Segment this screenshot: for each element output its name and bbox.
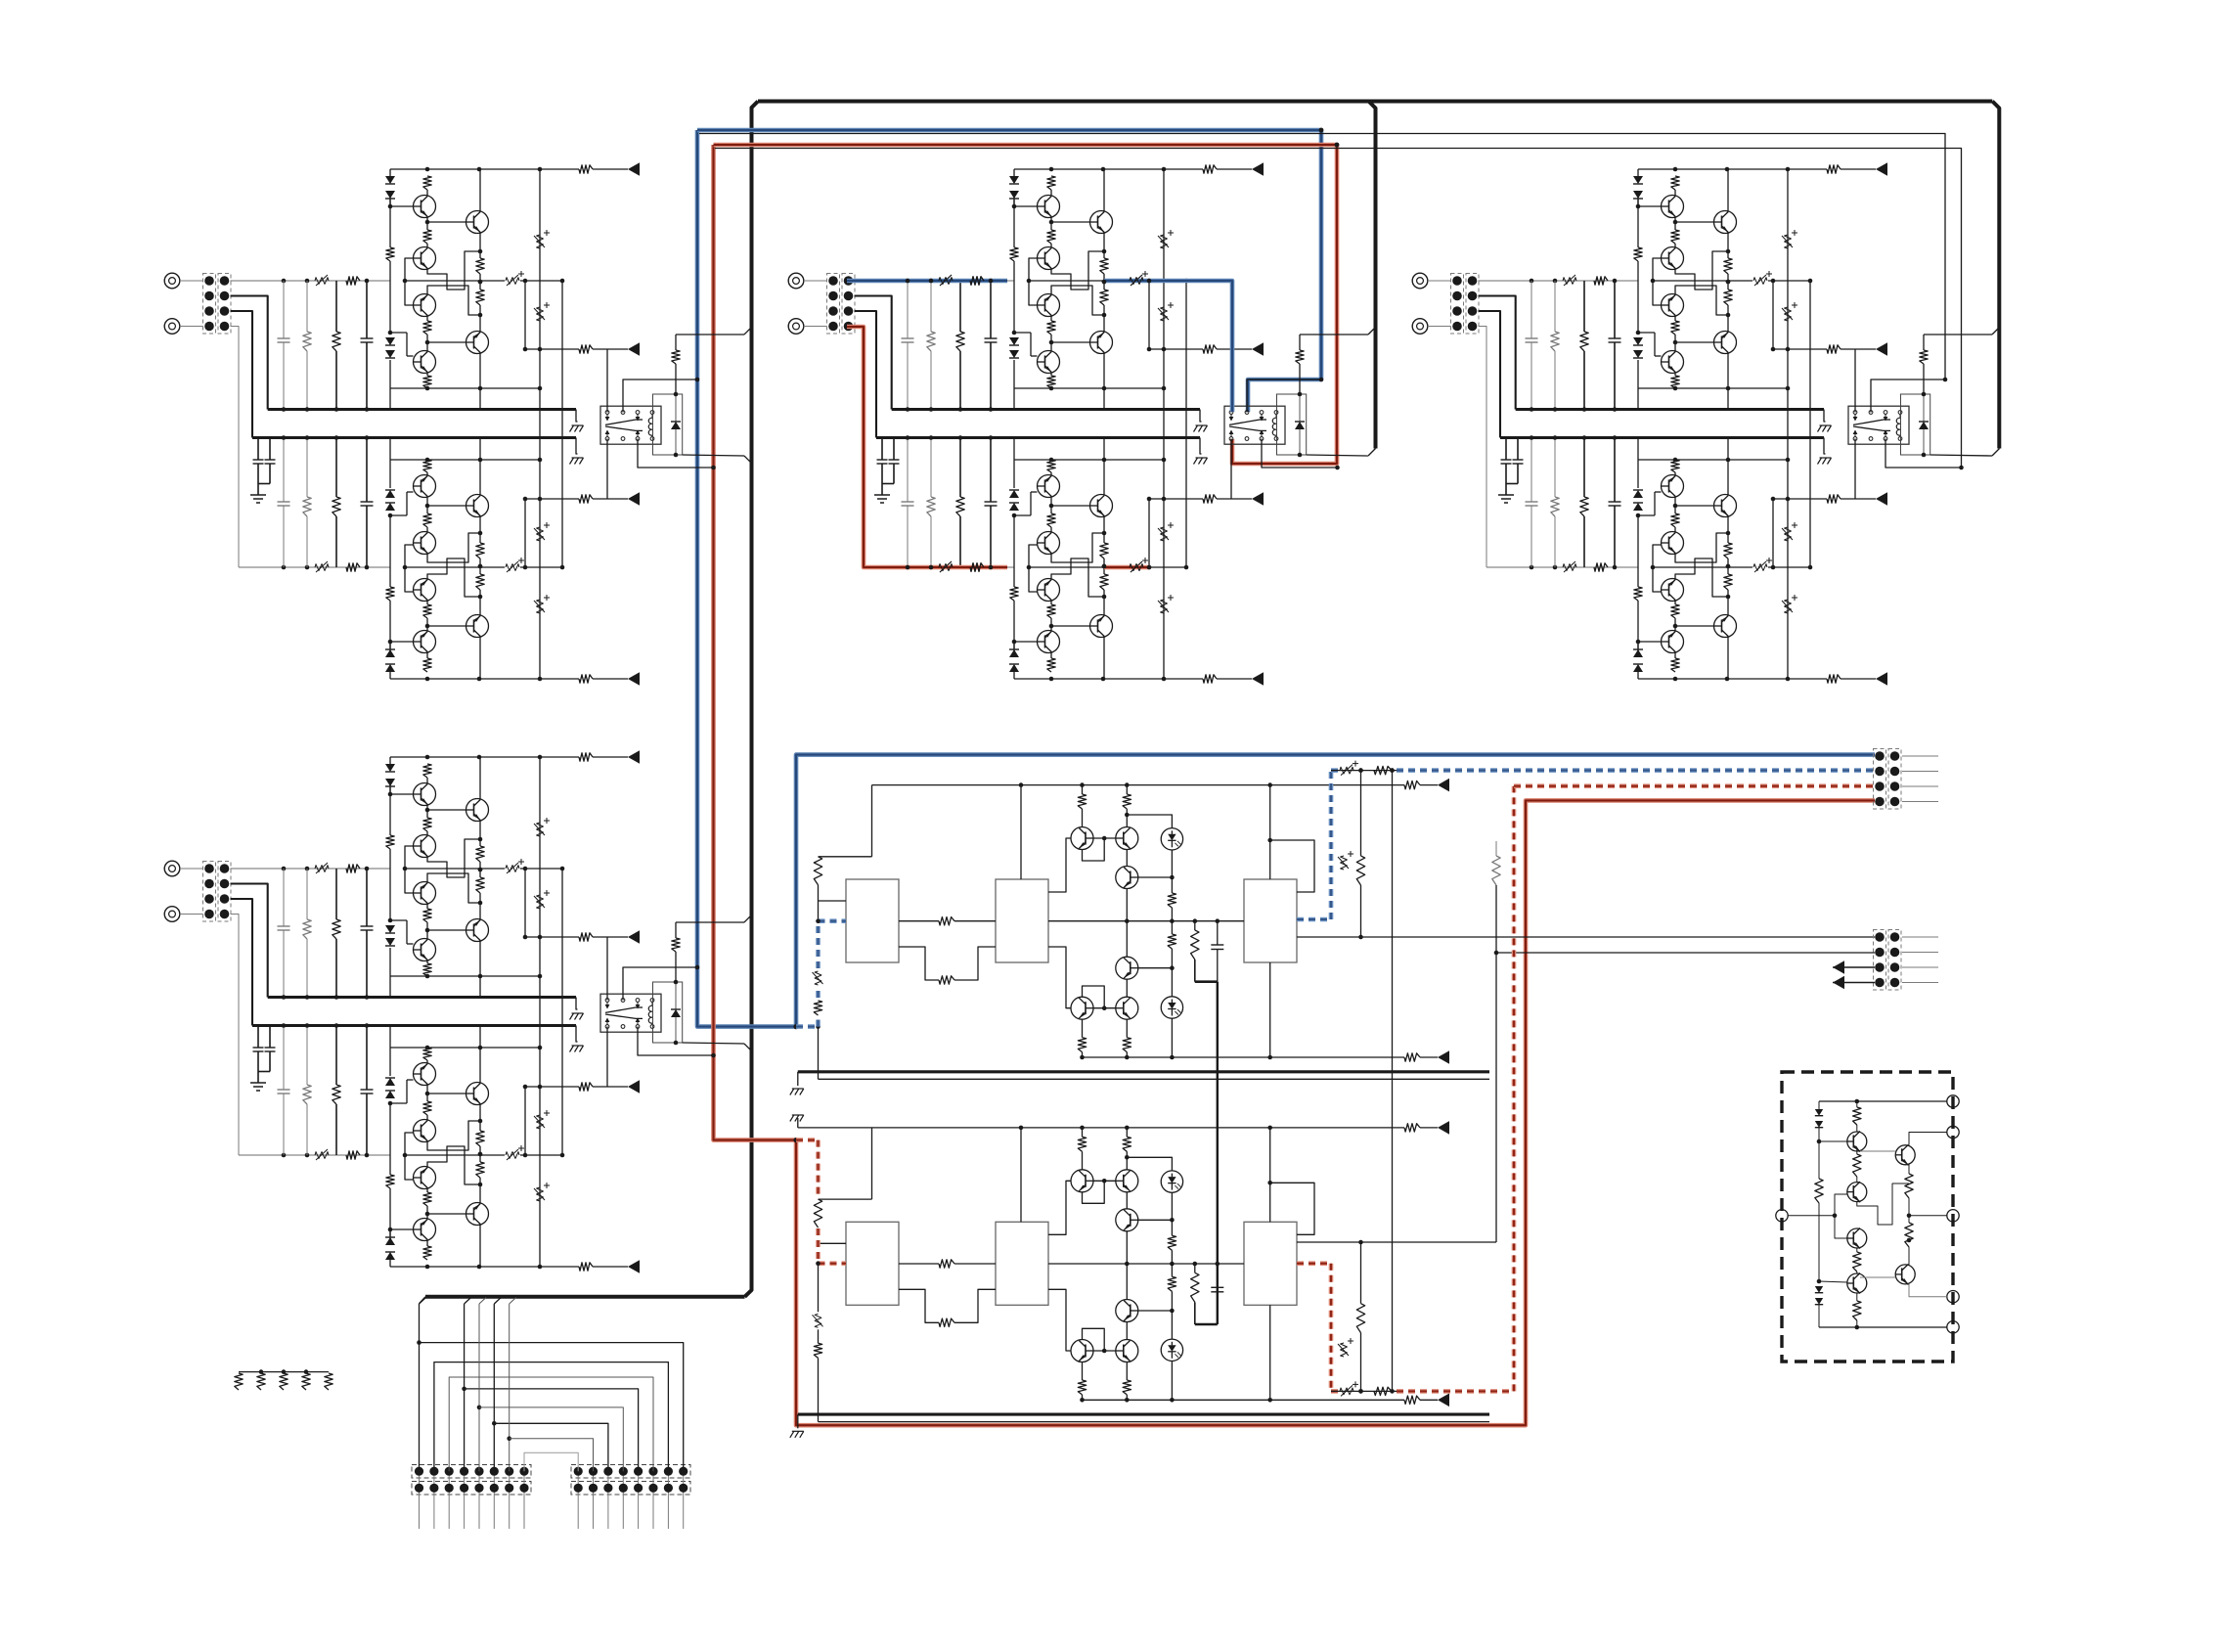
wire to supply arrow CH-A-bot (540, 678, 579, 680)
transistor CH-A-top Q1 (414, 196, 436, 218)
resistor CH-D R-rail2-h (346, 1151, 360, 1159)
diode chain CH-C-top D1-D2 (1637, 169, 1639, 176)
resistor CH-B rail2 redraw (970, 563, 984, 571)
wire CH-A relay pin2 line (623, 380, 697, 413)
red signal dashed (796, 1138, 819, 1142)
wire rail CH-D-top lower (390, 975, 540, 977)
relay RY-CH-D (600, 994, 661, 1032)
wire rail CH-D-bot (390, 1266, 540, 1268)
terminal arrow CH-D A1 (628, 930, 640, 944)
capacitor CH-D C-out1 (506, 866, 519, 872)
resistor CH-C-bot R-dcol (1634, 587, 1642, 601)
resistor comb (239, 1371, 329, 1373)
transistor CH-A-bot Q1 (414, 631, 436, 653)
ground CH-D g1 (572, 1012, 584, 1014)
diode chain CH-B-bot D1-D2 (1013, 672, 1015, 679)
wire join vertical resistors (1392, 771, 1394, 1392)
resistor CH-A-bot R-q1c (423, 658, 431, 672)
wire M2 ic feeds (1020, 1128, 1022, 1222)
transistor M1 QE2 (1116, 997, 1138, 1019)
wire CH-D cn row3 (231, 899, 253, 1026)
transistor M2 QE2 (1116, 1340, 1138, 1362)
resistor CH-C col168l (1583, 438, 1585, 498)
resistor CH-B-bot R-q1c (1047, 658, 1055, 672)
dashed power pack box (1782, 1072, 1953, 1362)
transistor CH-B-bot Q6 (1038, 475, 1060, 498)
resistor CH-B col138u (930, 281, 932, 332)
RCA jack J1 CH-A (164, 273, 180, 289)
wire M2 left column (871, 1128, 873, 1199)
ground CH-C g3 (1498, 494, 1514, 496)
wire CH-D arrow rail1 (524, 869, 526, 937)
capacitor CH-D col199u (366, 869, 368, 926)
transistor CH-C-top Q5 driver (1714, 332, 1737, 354)
blue speaker path solid (697, 130, 1875, 1027)
capacitor M2 C-rc (1217, 1264, 1219, 1287)
wire harness H2 (434, 1362, 669, 1472)
resistor CH-C-bot R-q3e (1671, 513, 1679, 527)
transistor pack QA (1895, 1145, 1915, 1165)
wire M2 bottom rail (1083, 1399, 1405, 1401)
resistor M1 R-l2 (814, 1001, 821, 1015)
wire rail CH-C-top lower (1638, 387, 1788, 389)
capacitor CH-D C-el1 C-el2 (257, 1026, 259, 1049)
wire base link CH-B-top (1014, 205, 1038, 207)
transistor CH-B-top Q5 driver (1090, 332, 1113, 354)
op-amp IC1 M2 (846, 1222, 899, 1305)
terminal arrow CH-A A2 (628, 492, 640, 506)
resistor CH-D R-ar1 (579, 933, 593, 941)
transistor M2 QE1 (1071, 1340, 1093, 1362)
wire to supply arrow CH-A-top (540, 168, 579, 170)
terminal arrow CH-C A1 (1876, 342, 1887, 356)
opto diode M2 PD1 (1161, 1171, 1182, 1192)
wire CH-A bevel top (676, 334, 744, 335)
capacitor CH-A col114l (283, 438, 285, 503)
wire CH-B arrow rail1 (1148, 281, 1150, 349)
diode chain CH-B-top D1-D2 (1013, 169, 1015, 176)
resistor CH-D-bot R-q1e (423, 1192, 431, 1206)
resistor CH-C-top R-rail (1827, 165, 1841, 173)
ground CH-A g2 (572, 457, 584, 459)
RCA jack J2 CH-A (164, 319, 180, 335)
opto diode M1 PD1 (1161, 828, 1182, 850)
RCA jack J2 CH-B (788, 319, 804, 335)
wire CH-B base feed2 (1029, 545, 1038, 567)
wire M1 top rail (872, 784, 1405, 786)
wire base link CH-C-top (1638, 205, 1662, 207)
diode CH-A relay D (675, 394, 677, 422)
wire M1 ic2 out (1048, 838, 1071, 892)
transistor CH-A-top Q5 driver (466, 332, 489, 354)
resistor CH-C relay R (1923, 335, 1925, 350)
relay coil box CH-B (1277, 394, 1307, 455)
ground CH-A g1 (572, 424, 584, 426)
op-amp IC2 M1 (996, 879, 1048, 962)
wire under red dashed row (1331, 1390, 1397, 1392)
capacitor CH-D col114l (283, 1026, 285, 1091)
resistor CH-C-top R-q3e (1671, 321, 1679, 335)
wire module right vertical x1424 dots (1390, 768, 1395, 773)
wire CH-A bus2 thick (252, 436, 576, 439)
wire CH-A base feed2 (405, 545, 414, 567)
resistor CH-D-bot R-q6e (423, 1048, 431, 1060)
resistor pack Rv1 (1905, 1174, 1913, 1198)
wire CH-B bus1 thick (892, 408, 1200, 411)
wire CH-A bus1 thick (268, 408, 576, 411)
diode chain CH-D-top D3-D4 (385, 925, 395, 933)
wire base link CH-D-top (390, 793, 414, 795)
resistor CH-A-top R-q1e (423, 230, 431, 244)
wire M2 rc elbow thick (1195, 1323, 1218, 1326)
transistor CH-D-top Q3 (414, 882, 436, 905)
wire sense line 2 (715, 149, 1962, 469)
RCA jack J2 CH-D (164, 907, 180, 922)
resistor M2 R-pd1 (1168, 1235, 1176, 1250)
resistor CH-D-top R-vas2 (476, 877, 484, 893)
blue input overlay CH-B (847, 279, 1007, 284)
resistor M1 Rc3 (1078, 1038, 1086, 1052)
opto diode M2 PD2 (1161, 1339, 1182, 1361)
resistor CH-B-bot R-dcol (1010, 587, 1018, 601)
resistor CH-A relay R (675, 335, 677, 350)
wire CN3 stubs (1902, 755, 1938, 757)
resistor comb R3 (280, 1373, 288, 1390)
connector CN5 right row1 (571, 1465, 690, 1479)
connector CN4 (1874, 930, 1886, 991)
wire CH-B cn row2 (855, 296, 892, 410)
wire thick top horizontal (758, 100, 1992, 104)
resistor CH-D col138l (306, 1026, 308, 1086)
resistor CH-D-bot R-dcol (386, 1175, 394, 1188)
transistor pack Q2 (1847, 1183, 1867, 1202)
op-amp IC3 M2 (1244, 1222, 1297, 1305)
diode chain CH-B-bot D3-D4 (1009, 503, 1019, 511)
wire CH-A rca feeds (180, 280, 203, 282)
wire CH-C rail to vas (1653, 280, 1752, 282)
wire M1 bus thick (798, 1070, 1489, 1073)
resistor CH-B rail redraw (970, 277, 984, 285)
resistor CH-D-top R-q6e (423, 963, 431, 976)
capacitor CH-D col199l (366, 1026, 368, 1091)
wire CH-C input rail bottom (1486, 566, 1638, 568)
wire CH-A relay pin3 line (638, 439, 714, 469)
transistor CH-A-bot Q4 driver (466, 615, 489, 638)
capacitor CH-A Cc1 (537, 235, 544, 248)
wire CH-C arrow rail1 (1772, 281, 1774, 349)
transistor CH-B-top Q3 (1038, 294, 1060, 317)
resistor CH-D R-ar2 (579, 1083, 593, 1091)
trimmer CH-B rail2 redraw (939, 564, 953, 571)
trimmer symbol CH-A rail2 (315, 564, 329, 571)
connector CN-CH-A input (203, 274, 216, 335)
transistor pack Q1 (1847, 1132, 1867, 1151)
resistor CH-B-top R-q3e (1047, 321, 1055, 335)
wire M1 bottom rail (1083, 1056, 1405, 1058)
wire CH-D base feed (405, 846, 414, 869)
wire M1 rc elbow thick (1195, 980, 1218, 983)
terminal arrow CH-C A2 (1876, 492, 1887, 506)
transistor CH-D-top Q6 (414, 939, 436, 961)
wire CH-A cn row2 (231, 296, 268, 410)
terminal arrow CH-B A1 (1252, 342, 1264, 356)
wire pack out3 (1909, 1215, 1947, 1217)
resistor CH-A-bot R-q6e (423, 460, 431, 472)
transistor CH-B-bot Q4 driver (1090, 615, 1113, 638)
resistor M1 R-t arrow (1404, 781, 1420, 788)
resistor M1 R-i12b (899, 947, 939, 980)
port pack out1 (1947, 1095, 1959, 1107)
resistor CH-C-top R-q1c (1671, 176, 1679, 190)
resistor CH-A col168l (335, 438, 337, 498)
resistor CH-B-top R-rail (1203, 165, 1217, 173)
capacitor CH-A C-el1 C-el2 (257, 438, 259, 461)
resistor CH-C R-ar2 (1827, 495, 1841, 503)
wire CH-C arrow rail2 (1772, 499, 1774, 567)
port pack out3 (1947, 1210, 1959, 1222)
wire staircase CH-D-top (427, 839, 480, 877)
wire CH-C rca feeds (1428, 280, 1451, 282)
wire harness feeder+H5 (478, 1304, 480, 1471)
capacitor CH-C col114u (1530, 281, 1532, 338)
capacitor CH-C Cc3 (1785, 527, 1792, 541)
diode chain CH-D-bot D1-D2 (389, 1260, 391, 1267)
transistor CH-A-bot Q3 (414, 532, 436, 555)
transistor CH-B-top Q6 (1038, 351, 1060, 374)
diode chain CH-B-top D3-D4 (1009, 337, 1019, 345)
port pack in (1776, 1210, 1788, 1222)
diode CH-D relay D (675, 982, 677, 1009)
transistor CH-A-top Q2 (414, 247, 436, 270)
trimmer M1 right (1341, 856, 1348, 870)
resistor CH-D-top R-vas1 (476, 846, 484, 862)
capacitor CH-A C-out1 (506, 278, 519, 285)
diode CH-B relay D (1299, 394, 1301, 422)
resistor CH-C col138u (1554, 281, 1556, 332)
wire CH-C coupling column (1787, 169, 1789, 349)
resistor CH-B-top R-q1e (1047, 230, 1055, 244)
trimmer symbol CH-C rail2 (1563, 564, 1576, 571)
capacitor CH-C Cc1 (1785, 235, 1792, 248)
wire rail CH-C-bot lower (1638, 459, 1788, 461)
capacitor CH-B C-el1 C-el2 (881, 438, 883, 461)
resistor CH-A R-ar2 (579, 495, 593, 503)
resistor pack Rq1 (1853, 1107, 1861, 1125)
resistor CH-A-top R-q1c (423, 176, 431, 190)
ground CH-A g3 (250, 494, 266, 496)
capacitor CH-B Cc3 (1161, 527, 1168, 541)
resistor CH-B R-ar2 (1203, 495, 1217, 503)
transistor CH-A-top Q6 (414, 351, 436, 374)
resistor on blue dashed (1374, 766, 1392, 774)
op-amp IC1 M1 (846, 879, 899, 962)
trimmer on blue dashed (1340, 767, 1353, 774)
wire CH-B relay pin2 line (1247, 380, 1321, 413)
resistor CH-B-bot R-rail (1203, 675, 1217, 683)
diode chain CH-A-bot D1-D2 (389, 672, 391, 679)
diode chain CH-A-bot D3-D4 (385, 503, 395, 511)
capacitor CH-A Cc2 (537, 307, 544, 321)
terminal arrow CH-A-top A-rail (628, 162, 640, 176)
wire base link CH-A-bot (390, 641, 414, 643)
wire M2 ic2 out (1048, 1181, 1071, 1234)
wire CH-B cn row3 (855, 311, 877, 438)
resistor CH-D col138u (306, 869, 308, 919)
transistor CH-B-bot Q2 (1038, 579, 1060, 602)
blue signal dashed (796, 1024, 819, 1029)
wire CH-C cn row3 (1479, 311, 1501, 438)
wire to CN3 row2 (1496, 952, 1875, 954)
capacitor CH-A Cc4 (537, 600, 544, 613)
transistor CH-C-bot Q4 driver (1714, 615, 1737, 638)
transistor CH-D-bot Q1 (414, 1219, 436, 1241)
wire harness feeder L1 (419, 1304, 421, 1471)
resistor M2 Rc1 (1078, 1137, 1086, 1151)
wire CH-A cn row4 (231, 327, 240, 568)
wire to supply arrow CH-C-top (1788, 168, 1827, 170)
capacitor CH-B C-out2 (1130, 564, 1143, 571)
resistor M2 R-l2 (814, 1343, 821, 1358)
wire CH-D base feed2 (405, 1133, 414, 1155)
resistor comb R2 (257, 1373, 265, 1390)
resistor CH-A-bot R-q3e (423, 513, 431, 527)
ground CH-D g3 (250, 1082, 266, 1084)
capacitor CH-C C-out2 (1753, 564, 1767, 571)
wire CH-B relay col (1230, 349, 1232, 413)
terminal arrow CH-A-bot A-rail (628, 672, 640, 686)
resistor comb R4 (302, 1373, 310, 1390)
wire harness H3 (449, 1377, 653, 1471)
resistor CH-D-bot R-q3e (423, 1101, 431, 1115)
capacitor CH-C col114l (1530, 438, 1532, 503)
transistor pack QB (1895, 1265, 1915, 1284)
wire CH-C input rail top (1479, 280, 1639, 282)
wire CH-C cn row4 (1479, 327, 1487, 568)
resistor M2 R-t arrow (1404, 1124, 1420, 1132)
diode chain CH-C-top D3-D4 (1633, 337, 1643, 345)
wire CH-D rca feeds (180, 868, 203, 870)
wire staircase CH-D-bot (427, 1146, 480, 1184)
resistor CH-A-top R-q6e (423, 376, 431, 388)
resistor M2 R-b arrow (1404, 1396, 1420, 1404)
resistor CH-D-top R-rail (579, 753, 593, 761)
transistor M1 QA (1071, 827, 1093, 850)
capacitor CH-B col199u (990, 281, 992, 338)
wire CH-B arrow rail2 (1148, 499, 1150, 567)
port pack out2 (1947, 1126, 1959, 1138)
wire CH-B rail to vas (1029, 280, 1129, 282)
transistor CH-A-bot Q6 (414, 475, 436, 498)
capacitor CH-D col114u (283, 869, 285, 926)
wire rail CH-A-bot (390, 678, 540, 680)
resistor CH-B col168u (959, 281, 961, 332)
resistor CH-D-bot R-vas2 (476, 1131, 484, 1146)
connector CN5 left row2 (412, 1482, 531, 1496)
wire CH-A cn row3 (231, 311, 253, 438)
wire pack QA links (1860, 1150, 1895, 1152)
trimmer symbol CH-B rail2 (939, 564, 953, 571)
resistor CH-B-top R-dcol (1010, 247, 1018, 261)
resistor CH-A-top R-dcol (386, 247, 394, 261)
wire CH-C relay col (1854, 349, 1856, 413)
terminal arrow CH-D-bot A-rail (628, 1260, 640, 1273)
transistor CH-D-bot Q6 (414, 1063, 436, 1086)
resistor CH-A-bot R-vas1 (476, 574, 484, 590)
wire staircase CH-C-top (1675, 251, 1728, 290)
resistor CH-B R-ar1 (1203, 345, 1217, 353)
transistor M1 QE1 (1071, 997, 1093, 1019)
ground CH-C g2 (1820, 457, 1832, 459)
wire rail CH-C-top (1638, 168, 1788, 170)
transistor CH-D-top Q4 driver (466, 799, 489, 822)
resistor CH-A-top R-vas2 (476, 290, 484, 305)
connector CN-CH-C input (1451, 274, 1464, 335)
wire CH-D bevel bottom (683, 1043, 744, 1044)
transistor CH-D-bot Q5 driver (466, 1083, 489, 1105)
wire rail CH-D-bot lower (390, 1047, 540, 1049)
transistor CH-A-top Q4 driver (466, 211, 489, 234)
resistor CH-B-bot R-vas1 (1100, 574, 1108, 590)
wire pack QB links (1860, 1276, 1895, 1278)
ground CH-B g2 (1196, 457, 1208, 459)
wire CH-C base feed2 (1653, 545, 1662, 567)
resistor CH-B-bot R-vas2 (1100, 543, 1108, 558)
capacitor CH-C Cc4 (1785, 600, 1792, 613)
transistor CH-D-top Q5 driver (466, 919, 489, 942)
trimmer M2 right (1341, 1343, 1348, 1357)
wire CH-C cn row2 (1479, 296, 1516, 410)
resistor CH-B relay R (1299, 335, 1301, 350)
wire M2 bottom thin rail (819, 1421, 1490, 1423)
ground M2 gb (792, 1430, 804, 1432)
resistor CH-C R-rail2-h (1594, 563, 1608, 571)
diode chain CH-C-bot D3-D4 (1633, 503, 1643, 511)
wire thick center vertical (1369, 102, 1376, 449)
resistor CH-A-top R-rail (579, 165, 593, 173)
transistor M1 QD (1116, 957, 1138, 979)
wire rail CH-A-bot lower (390, 459, 540, 461)
transistor CH-B-top Q4 driver (1090, 211, 1113, 234)
resistor M2 Rc3 (1078, 1380, 1086, 1395)
resistor pack Rv2 (1905, 1223, 1913, 1247)
connector CN-CH-D input (203, 862, 216, 922)
wire CH-B coupling column (1163, 169, 1165, 349)
transistor CH-A-bot Q5 driver (466, 495, 489, 517)
diode pack D2 (1815, 1286, 1823, 1293)
trimmer CH-B rail redraw (939, 278, 953, 285)
resistor M2 Rc4 (1123, 1380, 1131, 1395)
resistor M1 R-pd1 (1168, 893, 1176, 908)
wire CH-C bus2 thick (1500, 436, 1824, 439)
wire rail CH-B-top (1014, 168, 1164, 170)
resistor CH-B R-rail2-h (970, 563, 984, 571)
capacitor CH-B Cout redraw (1130, 278, 1143, 285)
port pack out4 (1947, 1291, 1959, 1303)
wire rc spine vertical (1217, 982, 1219, 1324)
wire to supply arrow CH-D-bot (540, 1266, 579, 1268)
resistor CH-D col168l (335, 1026, 337, 1086)
resistor CH-C-bot R-q1e (1671, 604, 1679, 618)
capacitor CH-B Cc2 (1161, 307, 1168, 321)
relay coil box CH-C (1901, 394, 1930, 455)
wire CH-D bus2 thick (252, 1024, 576, 1027)
transistor CH-C-top Q2 (1662, 247, 1684, 270)
transistor CH-D-bot Q2 (414, 1167, 436, 1189)
capacitor CH-C C-out1 (1753, 278, 1767, 285)
RCA jack J1 CH-C (1412, 273, 1428, 289)
RCA jack J1 CH-D (164, 861, 180, 876)
terminal arrow CH-C-bot A-rail (1876, 672, 1887, 686)
